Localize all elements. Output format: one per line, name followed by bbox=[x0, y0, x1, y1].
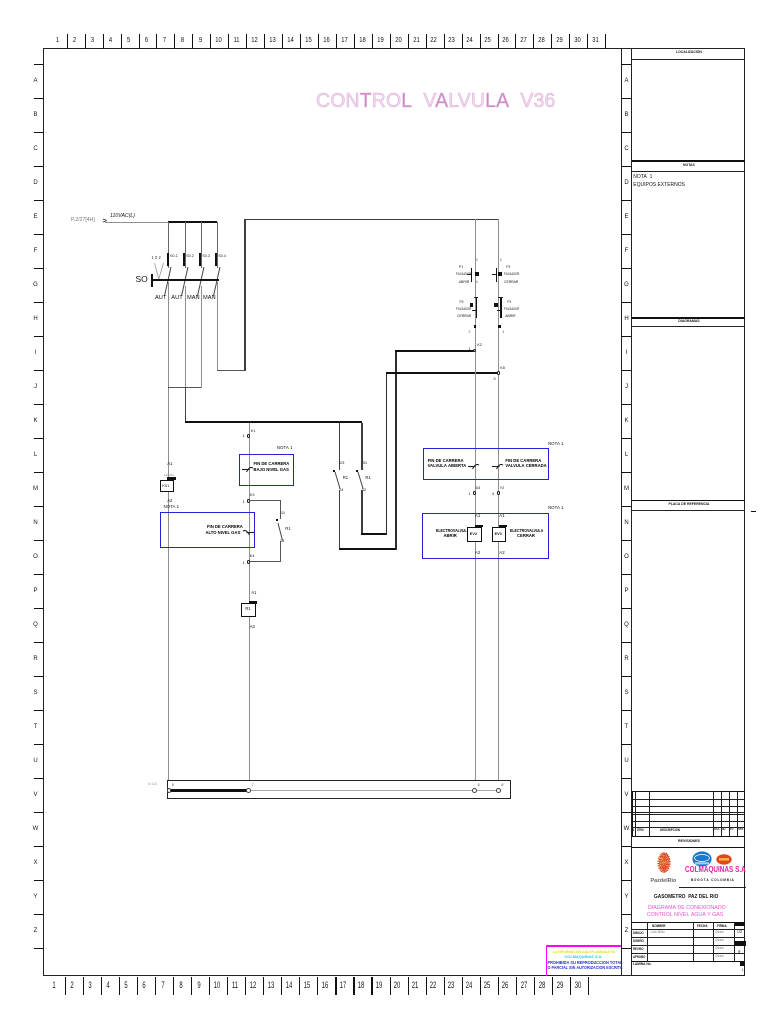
position label AUT 1 bbox=[155, 295, 166, 302]
pushbutton P2 cerrar NO right bbox=[500, 259, 502, 263]
contact R1 31-32 wire upper bbox=[361, 423, 362, 470]
terminal 8 bbox=[496, 788, 501, 793]
bypass branch bottom wire bbox=[249, 561, 280, 562]
contact R1 31-32 arm bbox=[356, 471, 366, 490]
wire selector contact 3 drop bbox=[201, 222, 202, 268]
relay coil R1 bbox=[241, 603, 256, 617]
contact R1 11-14 arm bbox=[276, 522, 286, 542]
coil K01 label A1 bbox=[167, 462, 172, 467]
margin dash bbox=[751, 511, 757, 513]
solenoid coil EV3 bbox=[492, 527, 507, 542]
top ruler ticks bbox=[67, 34, 68, 49]
panel line placa top bbox=[632, 500, 746, 502]
coil EV2 label A2 bbox=[475, 550, 480, 555]
junction dot left pushbutton wire bbox=[474, 325, 477, 328]
selector position pointer bbox=[153, 262, 165, 280]
contact R1 23-24 dot bbox=[333, 470, 336, 473]
coil K01 hat bbox=[167, 477, 177, 480]
net label P.2/27[4H] bbox=[71, 218, 95, 224]
coil EV3 label A1 bbox=[499, 513, 504, 518]
note text NOTA 1 EQUIPOS EXTERNOS bbox=[633, 175, 652, 181]
selector contact bar 1 bbox=[167, 253, 169, 267]
junction dot right pushbutton wire bbox=[498, 325, 501, 328]
coil EV2 hat bbox=[475, 525, 483, 528]
terminal strip label bbox=[148, 782, 157, 786]
pushbutton P1 abrir NO bbox=[476, 259, 478, 263]
coil EV3 hat bbox=[499, 525, 507, 528]
right ruler letters bbox=[622, 78, 631, 85]
terminal strip thin link bbox=[250, 790, 499, 791]
node K1 bbox=[247, 434, 251, 438]
company name COLMAQUINAS bbox=[685, 866, 746, 875]
disclaimer cyan line bbox=[564, 955, 602, 959]
wire thick y548 bbox=[339, 548, 397, 550]
terminal strip bar bbox=[167, 780, 511, 799]
panel line diagramas top bbox=[632, 317, 746, 319]
contact R1 23-24 arm bbox=[333, 471, 343, 490]
disclaimer yellow line bbox=[553, 950, 615, 954]
terminal 7 bbox=[246, 788, 251, 793]
selector contact bar 4 bbox=[215, 253, 217, 267]
note box NOTA1 alto nivel bbox=[160, 512, 255, 548]
selector bar left tick bbox=[151, 274, 153, 288]
selector contact bar 3 bbox=[199, 253, 201, 267]
position label MAN 1 bbox=[187, 295, 200, 302]
lamina band bbox=[633, 962, 651, 967]
solenoid coil EV2 bbox=[467, 527, 482, 542]
contact R1 31-32 wire lower bbox=[361, 490, 362, 534]
pushbutton P1 abrir NC right bbox=[494, 303, 498, 307]
coil R1 label A2 bbox=[250, 625, 255, 630]
coil EV3 label A2 bbox=[499, 550, 504, 555]
drawing title line 1 bbox=[648, 905, 726, 911]
wire pushbutton right vertical bbox=[498, 219, 499, 780]
wire MAN1 vertical bbox=[201, 286, 202, 388]
selector contact bar 2 bbox=[183, 253, 185, 267]
coil EV2 label A1 bbox=[475, 513, 480, 518]
wire AUT1 vertical to K01 branch bbox=[168, 282, 169, 780]
wire selector contact 1 drop bbox=[168, 222, 169, 268]
bottom ruler numbers bbox=[50, 981, 57, 992]
position label MAN 2 bbox=[203, 295, 216, 302]
limit switch valvula cerrada symbol bbox=[491, 459, 504, 472]
wire selector contact 4 drop bbox=[217, 222, 218, 268]
left ruler ticks bbox=[34, 64, 43, 65]
drawing title line 2 bbox=[647, 912, 723, 918]
relay coil K01 bbox=[160, 480, 174, 492]
note box NOTA1 bajo nivel bbox=[239, 454, 293, 486]
source arrow bbox=[103, 217, 107, 226]
wire pushbutton left vertical bbox=[475, 219, 476, 780]
bypass branch R1 11-14 top wire bbox=[249, 500, 280, 501]
contact R1 31-32 dot bbox=[356, 470, 359, 473]
panel line localizacion bottom bbox=[632, 160, 746, 162]
logo red oval bbox=[716, 854, 732, 865]
contact label S0.3 bbox=[202, 254, 210, 258]
selector contact arm 2 bbox=[180, 266, 190, 297]
right ruler column line bbox=[631, 48, 632, 976]
wire thick y372 bbox=[386, 372, 498, 374]
coil K01 label A2 bbox=[167, 499, 172, 504]
bypass branch right vertical upper bbox=[280, 500, 281, 520]
panel header LOCALIZACION bbox=[642, 50, 735, 54]
selector contact arm 1 bbox=[163, 266, 173, 297]
node Y2 bbox=[497, 491, 501, 495]
bottom ruler ticks bbox=[65, 977, 66, 995]
revisiones band bbox=[640, 839, 737, 843]
wire selector contact 2 drop bbox=[185, 222, 186, 268]
selector switch S0 bar bbox=[151, 279, 219, 281]
wire MAN jog horizontal bbox=[217, 370, 245, 371]
note box NOTA1 fin de carrera valvula bbox=[423, 448, 550, 481]
node K4 bbox=[247, 560, 251, 564]
node K3 bbox=[247, 499, 251, 503]
panel header NOTAS bbox=[642, 163, 735, 167]
note box NOTA1 electrovalvulas bbox=[422, 513, 549, 560]
disclaimer blue line 1 bbox=[547, 961, 622, 966]
main area right border bbox=[621, 48, 622, 976]
contact R1 23-24 wire upper bbox=[339, 423, 340, 470]
logo Paz del Rio text bbox=[651, 878, 677, 884]
selector contact arm 3 bbox=[196, 266, 206, 297]
panel header DIAGRAMAS bbox=[642, 319, 735, 323]
disclaimer box border bbox=[546, 945, 621, 946]
position label AUT 2 bbox=[171, 295, 182, 302]
node K5 bbox=[497, 371, 501, 375]
contact label S0.4 bbox=[218, 254, 226, 258]
contact R1 11-14 dot bbox=[276, 519, 278, 521]
logo blue oval bbox=[692, 851, 712, 867]
selector switch S0 label bbox=[136, 275, 148, 285]
top ruler numbers bbox=[53, 36, 60, 45]
wire riser x395 bbox=[395, 351, 397, 550]
wire junction horizontal y388 bbox=[168, 387, 201, 388]
limit switch bajo nivel gas symbol bbox=[241, 462, 254, 475]
wire drop to bus bbox=[185, 387, 186, 422]
terminal 5 bbox=[167, 788, 172, 793]
signature rows bbox=[633, 931, 644, 935]
limit switch valvula abierta symbol bbox=[467, 459, 480, 472]
contact label S0.2 bbox=[186, 254, 194, 258]
wire AUT2 vertical bbox=[185, 286, 186, 388]
drawing title CONTROL VALVULA V36 bbox=[316, 90, 556, 113]
wire MAN2 vertical bbox=[217, 282, 218, 371]
panel header PLACA DE REFERENCIA bbox=[642, 502, 735, 506]
limit switch alto nivel gas symbol bbox=[242, 525, 255, 538]
node K2 bbox=[473, 349, 477, 353]
wire feed horizontal thin bbox=[105, 222, 168, 223]
wire mid column vertical bbox=[249, 423, 250, 780]
left ruler letters bbox=[31, 78, 40, 85]
pushbutton P2 cerrar NC bbox=[470, 303, 474, 307]
revision table frame bbox=[632, 791, 746, 837]
signature table bbox=[632, 929, 746, 930]
selector position marks 1 0 2 bbox=[152, 256, 161, 261]
wire thick y350 bbox=[395, 350, 475, 352]
wire top run to pushbuttons bbox=[244, 219, 498, 220]
terminal 6 bbox=[472, 788, 477, 793]
wire MAN riser vertical bbox=[244, 219, 245, 371]
contact R1 23-24 wire lower bbox=[339, 490, 340, 549]
bypass branch right vertical lower bbox=[280, 541, 281, 563]
selector contact arm 4 bbox=[212, 266, 222, 297]
wire feed horizontal thick bbox=[168, 221, 217, 223]
right ruler ticks bbox=[621, 64, 631, 65]
project title GASOMETRO bbox=[654, 894, 718, 900]
cad number cell bbox=[735, 922, 745, 926]
net label 110VAC(L) bbox=[110, 214, 135, 220]
signature table top line bbox=[632, 922, 746, 923]
wire riser x386 bbox=[386, 373, 388, 535]
disclaimer blue line 2 bbox=[547, 966, 622, 971]
wire thick y533 bbox=[361, 533, 387, 535]
node A3 bbox=[473, 491, 477, 495]
terminal strip neutral link thick bbox=[169, 789, 250, 791]
contact label S0.1 bbox=[170, 254, 178, 258]
coil R1 hat bbox=[249, 601, 256, 604]
company city bbox=[691, 879, 734, 883]
wire control bus thick bbox=[185, 421, 363, 423]
coil R1 label A1 bbox=[251, 591, 256, 596]
revision table header text bbox=[632, 829, 634, 833]
logo Paz del Rio sunburst bbox=[657, 851, 671, 874]
company underline bbox=[679, 887, 746, 888]
